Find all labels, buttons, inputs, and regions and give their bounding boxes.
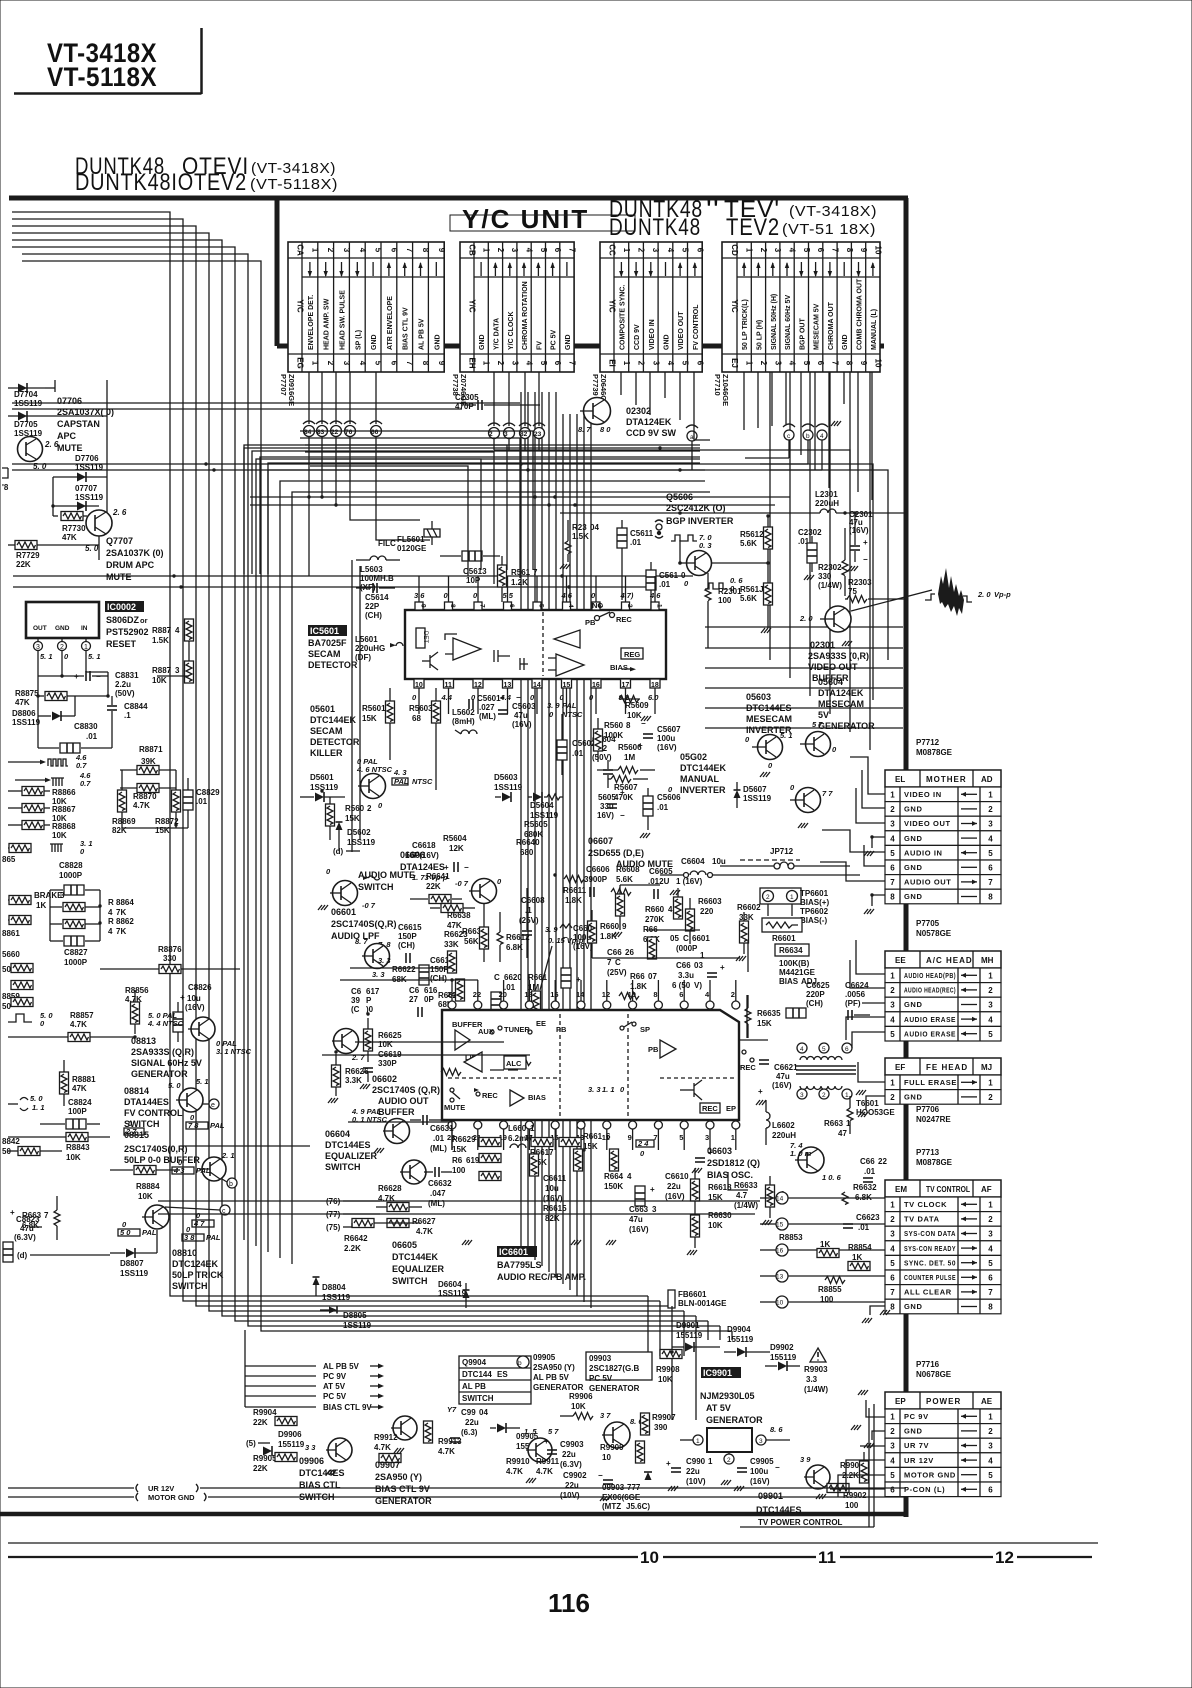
svg-text:D9906: D9906 (278, 1430, 302, 1439)
transistor Q9903 (600, 1411, 643, 1448)
svg-text:(C: (C (351, 1005, 360, 1014)
svg-text:GND: GND (479, 334, 486, 350)
IC6601 internal line amp (441, 1052, 531, 1076)
inductor L5601 220uH (355, 635, 403, 662)
svg-text:82: 82 (520, 431, 528, 438)
svg-text:0: 0 (640, 1149, 645, 1158)
svg-text:4 7: 4 7 (193, 1219, 205, 1228)
transistor Q8813 (147, 1011, 252, 1056)
svg-text:27: 27 (409, 995, 418, 1004)
svg-text:1: 1 (890, 1201, 895, 1210)
svg-text:AUDIO OUT: AUDIO OUT (904, 878, 951, 887)
svg-text:4: 4 (567, 604, 574, 608)
svg-text:P7716: P7716 (916, 1360, 940, 1369)
svg-text:50: 50 (2, 1002, 11, 1011)
svg-text:J5.6C): J5.6C) (626, 1502, 650, 1511)
svg-text:R660: R660 (645, 905, 665, 914)
svg-text:DETECTOR: DETECTOR (308, 660, 358, 670)
svg-text:BRAKE: BRAKE (34, 891, 63, 900)
capacitor C6621 47u (758, 1060, 798, 1096)
svg-text:3. 1 NTSC: 3. 1 NTSC (216, 1047, 252, 1056)
resistor R6632 6.8K (842, 1183, 877, 1205)
svg-text:R6642: R6642 (344, 1234, 368, 1243)
svg-text:C6632: C6632 (428, 1179, 452, 1188)
svg-text:SWITCH: SWITCH (325, 1162, 361, 1172)
svg-text:10K: 10K (627, 711, 642, 720)
svg-text:(10V): (10V) (560, 1491, 580, 1500)
svg-text:D5607: D5607 (743, 785, 767, 794)
capacitor C8823 47u (3, 1208, 40, 1262)
transistor Q5606 (678, 540, 711, 576)
svg-text:+: + (720, 963, 725, 972)
transistor Q9907 (391, 1416, 417, 1453)
svg-text:10K: 10K (138, 1192, 153, 1201)
ground EL row4 (864, 851, 874, 856)
svg-text:4: 4 (788, 248, 797, 253)
svg-text:9: 9 (628, 1133, 632, 1142)
resistor R5601 15K (362, 688, 395, 760)
svg-text:1SS119: 1SS119 (75, 493, 104, 502)
value box 2.4 (636, 1139, 654, 1158)
svg-text:CHROMA OUT: CHROMA OUT (828, 301, 835, 350)
svg-text:C8828: C8828 (59, 861, 83, 870)
svg-text:5: 5 (890, 1030, 895, 1039)
pin values top (414, 591, 661, 600)
pot 100K(B) BIAS ADJ (779, 959, 819, 986)
resistor R8864 4.7K (50, 898, 134, 917)
capacitor C2301 47u (848, 510, 873, 571)
svg-text:SIGNAL 60Hz 5V: SIGNAL 60Hz 5V (131, 1058, 202, 1068)
svg-text:V): V) (694, 981, 702, 990)
svg-text:39: 39 (351, 996, 360, 1005)
svg-text:POWER: POWER (926, 1397, 961, 1406)
svg-text:FULL ERASE: FULL ERASE (904, 1078, 957, 1087)
svg-text:Vp-p: Vp-p (994, 590, 1011, 599)
svg-text:47K: 47K (447, 921, 462, 930)
svg-text:5 7: 5 7 (812, 720, 823, 729)
resistor R9904 22K (253, 1408, 297, 1427)
svg-text:7: 7 (988, 878, 993, 887)
svg-text:SP: SP (640, 1025, 650, 1034)
diode D7707 (53, 484, 104, 511)
svg-text:1K: 1K (820, 1240, 830, 1249)
svg-text:3: 3 (510, 248, 519, 253)
svg-text:(VT-3418X): (VT-3418X) (251, 160, 336, 177)
svg-text:(CH): (CH) (398, 941, 415, 950)
svg-text:P-CON (L): P-CON (L) (904, 1485, 945, 1494)
svg-text:NTSC: NTSC (562, 710, 583, 719)
warning triangle (810, 1348, 826, 1362)
svg-text:09907: 09907 (375, 1460, 400, 1470)
node (e) (203, 1099, 219, 1109)
IC0002 labels (105, 601, 149, 649)
capacitor C5612 (646, 562, 689, 612)
svg-text:1: 1 (745, 361, 754, 366)
transistor Q5601 (356, 757, 393, 810)
pal/ntsc values (547, 701, 583, 719)
leader line to blob (851, 590, 932, 611)
svg-text:D7704: D7704 (14, 390, 38, 399)
footer rule upper (8, 1542, 1098, 1544)
resistor R9901 2.2K (840, 1452, 869, 1483)
svg-text:4: 4 (890, 1015, 895, 1024)
svg-text:0: 0 (378, 801, 383, 810)
svg-text:1SS119: 1SS119 (743, 794, 772, 803)
svg-text:R664: R664 (604, 1172, 624, 1181)
capacitor C6623 .01 (843, 1213, 880, 1232)
wire bus horizontals (12, 403, 888, 700)
svg-text:UR 12V: UR 12V (904, 1456, 934, 1465)
svg-text:5. 1: 5. 1 (88, 652, 101, 661)
svg-text:8: 8 (449, 604, 456, 608)
svg-text:2. 6: 2. 6 (112, 508, 127, 517)
wire MOTOR GND (8, 1493, 906, 1502)
resistor R8854 1K (848, 1243, 872, 1271)
resistor R6603 220 (686, 897, 723, 944)
transistor Q6605 labels (392, 1240, 445, 1286)
svg-text:155119: 155119 (770, 1353, 797, 1362)
transistor Q8814 (168, 1077, 209, 1112)
frame right edge (904, 198, 909, 1517)
svg-text:5.5: 5.5 (503, 591, 514, 600)
svg-text:b: b (229, 1181, 233, 1188)
wire bus mid staircase (300, 431, 533, 584)
svg-text:R2303: R2303 (848, 578, 872, 587)
svg-text:2: 2 (60, 644, 64, 651)
svg-text:TV POWER CONTROL: TV POWER CONTROL (758, 1518, 843, 1527)
svg-text:0.7: 0.7 (80, 779, 91, 788)
svg-text:R887: R887 (152, 666, 172, 675)
svg-text:84: 84 (304, 429, 312, 436)
svg-text:.01: .01 (630, 538, 642, 547)
antenna node (655, 520, 663, 538)
transistor Q2302 (578, 398, 611, 435)
capacitor C5604 .22 (592, 735, 616, 788)
svg-text:MESECAM: MESECAM (818, 699, 864, 709)
svg-text:P7712: P7712 (916, 738, 940, 747)
svg-text:390: 390 (654, 1423, 668, 1432)
svg-text:.01: .01 (657, 803, 669, 812)
transistor Q9901 labels (756, 1491, 843, 1527)
svg-text:GND: GND (55, 625, 70, 632)
transistor Q7707 (85, 508, 127, 560)
svg-text:(6.3): (6.3) (461, 1428, 478, 1437)
table arrow-row separators (302, 276, 880, 278)
svg-text:39K: 39K (141, 757, 156, 766)
svg-text:(10V): (10V) (686, 1477, 706, 1486)
svg-text:5. 0: 5. 0 (30, 1094, 43, 1103)
svg-text:09903: 09903 (589, 1354, 612, 1363)
svg-text:6: 6 (816, 248, 825, 253)
svg-text:R6632: R6632 (853, 1183, 877, 1192)
wire bus left staircase (12, 212, 732, 1331)
svg-text:HEAD SW. PULSE: HEAD SW. PULSE (340, 290, 347, 350)
svg-text:.01: .01 (196, 797, 208, 806)
svg-text:1: 1 (988, 1413, 993, 1422)
svg-text:47u: 47u (514, 711, 528, 720)
title corner bracket (14, 28, 202, 94)
diode D8805 (320, 1307, 372, 1331)
svg-text:EE: EE (536, 1019, 546, 1028)
svg-text:6: 6 (890, 1274, 895, 1283)
transistor Q9907 labels (375, 1460, 432, 1506)
svg-text:100: 100 (718, 596, 732, 605)
svg-text:PAL: PAL (196, 1166, 211, 1175)
svg-text:0.7: 0.7 (76, 761, 87, 770)
svg-text:1.5K: 1.5K (152, 636, 169, 645)
svg-text:12K: 12K (449, 844, 464, 853)
left edge labels 8860 (2, 950, 33, 974)
svg-text:4 3: 4 3 (173, 1166, 185, 1175)
svg-text:IC6601: IC6601 (499, 1247, 528, 1257)
svg-text:7: 7 (567, 361, 576, 366)
svg-text:D5602: D5602 (347, 828, 371, 837)
svg-text:4.7K: 4.7K (374, 1443, 391, 1452)
resistor R8872 15K (155, 817, 179, 835)
svg-text:.01: .01 (572, 749, 584, 758)
svg-text:L6602: L6602 (772, 1121, 795, 1130)
svg-text:C9905: C9905 (750, 1457, 774, 1466)
svg-text:1K: 1K (36, 901, 46, 910)
wire audio feeders (30, 968, 760, 1227)
svg-text:ALL CLEAR: ALL CLEAR (904, 1288, 952, 1297)
transistor Q8815 labels (124, 1130, 200, 1165)
op-amp U IC5601 body (405, 576, 666, 714)
svg-text:VIDEO IN: VIDEO IN (904, 790, 942, 799)
svg-text:06607: 06607 (588, 836, 613, 846)
resistor R6628 4.7K (376, 1184, 422, 1228)
value box 0 7 (124, 1119, 144, 1136)
svg-text:L5602: L5602 (452, 708, 475, 717)
svg-text:4: 4 (890, 1456, 895, 1465)
svg-text:+: + (444, 863, 449, 872)
resistor R8869 82K (112, 770, 181, 835)
svg-text:0: 0 (473, 591, 478, 600)
diode D5603 (494, 773, 523, 802)
wire EM row8 gnd (862, 1306, 885, 1323)
resistor R7729 22K (8, 541, 99, 570)
svg-text:(50V): (50V) (592, 753, 612, 762)
svg-text:MANUAL: MANUAL (680, 774, 719, 784)
svg-text:CCD 9V: CCD 9V (634, 324, 641, 350)
wire EL table stubs (820, 757, 885, 906)
svg-text:GND: GND (904, 1427, 922, 1436)
svg-text:OUT: OUT (33, 625, 47, 632)
svg-text:KILLER: KILLER (310, 748, 343, 758)
svg-text:R8868: R8868 (52, 822, 76, 831)
svg-text:Y/C: Y/C (468, 299, 477, 313)
svg-text:1: 1 (890, 972, 895, 981)
IC5601 internal caps (494, 650, 528, 670)
inductor L5603 (356, 556, 400, 592)
svg-text:GND: GND (664, 334, 671, 350)
svg-text:SIGNAL 60Hz 5V: SIGNAL 60Hz 5V (785, 295, 792, 350)
svg-text:1: 1 (790, 894, 794, 901)
svg-text:18: 18 (651, 682, 659, 689)
svg-text:R8875: R8875 (15, 689, 39, 698)
svg-text:VIDEO OUT: VIDEO OUT (678, 311, 685, 350)
svg-text:.1: .1 (124, 711, 131, 720)
frame left step vertical (275, 198, 280, 346)
capacitor C6606 R6608 (584, 865, 640, 897)
svg-text:-0 7: -0 7 (455, 879, 469, 888)
svg-text:07706: 07706 (57, 396, 82, 406)
svg-text:4: 4 (705, 990, 710, 999)
off-page connector stub (2, 468, 9, 492)
capacitor C6617 39P (351, 987, 380, 1014)
svg-text:C6631: C6631 (430, 1124, 454, 1133)
svg-text:5: 5 (681, 361, 690, 366)
svg-text:4: 4 (988, 1244, 993, 1253)
resistor R8881 47K (60, 1060, 97, 1106)
svg-text:07: 07 (648, 972, 657, 981)
svg-text:2: 2 (731, 990, 735, 999)
svg-text:(VT-5118X): (VT-5118X) (250, 176, 338, 193)
svg-text:1K: 1K (852, 1253, 862, 1262)
svg-text:R2301: R2301 (718, 587, 742, 596)
svg-text:(50V): (50V) (115, 689, 135, 698)
svg-text:REG: REG (624, 650, 640, 659)
transistor Q5603 labels (746, 692, 792, 735)
capacitor C6605 (648, 867, 703, 899)
svg-text:0: 0 (497, 877, 502, 886)
transistor Q6606 labels (400, 850, 469, 872)
svg-text:10u: 10u (712, 857, 726, 866)
IC6601 internal rec transistor (680, 1080, 736, 1113)
power rail labels with braces (245, 1330, 384, 1412)
transistor Q7707 labels (106, 536, 164, 582)
svg-text:D8804: D8804 (322, 1283, 346, 1292)
plug label P7712 (916, 738, 953, 757)
svg-text:7 7: 7 7 (822, 789, 833, 798)
svg-text:+: + (620, 788, 625, 797)
svg-text:2: 2 (727, 1457, 731, 1464)
wire bus right verticals (770, 372, 870, 750)
svg-text:47K: 47K (15, 698, 30, 707)
resistor R8884 10K (110, 1166, 180, 1202)
capacitor C6619 330P (360, 1050, 402, 1089)
svg-text:3.6: 3.6 (414, 591, 425, 600)
svg-text:C8829: C8829 (196, 788, 220, 797)
svg-text:C9903: C9903 (560, 1440, 584, 1449)
resistor R6633 4.7 (734, 1176, 785, 1225)
svg-text:b: b (806, 433, 810, 440)
svg-text:R9906: R9906 (569, 1392, 593, 1401)
svg-text:Z1046GE: Z1046GE (721, 374, 730, 406)
svg-text:R5604: R5604 (443, 834, 467, 843)
svg-text:Y/C: Y/C (608, 299, 617, 313)
capacitor C5602 .01 (557, 714, 596, 775)
svg-text:REC: REC (740, 1063, 756, 1072)
testpoint TP6601 TP6602 (760, 888, 829, 925)
svg-text:PST52902: PST52902 (106, 627, 149, 637)
inductor L6602 220uH (766, 1100, 796, 1145)
svg-text:4.7: 4.7 (736, 1191, 748, 1200)
diode D5601 (300, 773, 345, 802)
resistor R8862 4.7K (50, 917, 134, 936)
svg-text:(PF): (PF) (845, 999, 861, 1008)
ground T6601 (856, 1090, 866, 1095)
svg-text:SWITCH: SWITCH (462, 1394, 494, 1403)
node stubs (14)(15)(16)(13)(10) (760, 1192, 885, 1308)
plug label P7710 (713, 374, 730, 406)
svg-text:330P: 330P (378, 1059, 397, 1068)
plug label P7738 (451, 374, 468, 406)
svg-text:4: 4 (666, 248, 675, 253)
svg-text:DTC144ES: DTC144ES (746, 703, 792, 713)
transistor Q2301 labels (808, 640, 869, 683)
svg-text:3.3u: 3.3u (678, 971, 694, 980)
svg-text:(CH): (CH) (365, 611, 382, 620)
svg-text:GND: GND (904, 834, 922, 843)
svg-text:L660: L660 (508, 1124, 527, 1133)
value box 4.7 PAL (192, 1211, 214, 1228)
svg-text:C6623: C6623 (856, 1213, 880, 1222)
svg-text:(DF): (DF) (355, 653, 371, 662)
svg-text:R887: R887 (152, 626, 172, 635)
diode D9906 (263, 1430, 316, 1456)
svg-text:03: 03 (694, 961, 703, 970)
svg-text:(CH): (CH) (430, 974, 447, 983)
resistor R5605 680K (524, 820, 548, 839)
svg-text:150K: 150K (604, 1182, 623, 1191)
svg-text:M4421GE: M4421GE (779, 968, 816, 977)
svg-text:IC9901: IC9901 (703, 1368, 732, 1378)
svg-text:7: 7 (479, 604, 486, 608)
resistor R8868 10K (8, 821, 76, 841)
op-amp U IC6601 body (442, 980, 740, 1150)
svg-text:C66: C66 (860, 1157, 875, 1166)
svg-text:1: 1 (988, 972, 993, 981)
svg-text:FV CONTROL: FV CONTROL (693, 304, 700, 350)
svg-text:(1/4W): (1/4W) (804, 1385, 828, 1394)
ground under CD pin8 (831, 421, 841, 426)
wire audio right feeders (592, 885, 768, 1190)
svg-text:AT 5V: AT 5V (323, 1382, 346, 1391)
svg-text:8: 8 (845, 361, 854, 366)
svg-text:2SA1037K (0): 2SA1037K (0) (106, 548, 164, 558)
capacitor C2305 470P (455, 393, 540, 411)
capacitor C8830 (38, 712, 112, 753)
svg-text:2: 2 (637, 248, 646, 253)
svg-text:R6625: R6625 (378, 1031, 402, 1040)
svg-text:1SS119: 1SS119 (310, 783, 339, 792)
capacitor C6611 10u (530, 1154, 568, 1223)
svg-text:3: 3 (988, 1001, 993, 1010)
IC5601 labels (308, 625, 358, 670)
svg-text:7K: 7K (116, 927, 126, 936)
svg-text:1: 1 (708, 1457, 713, 1466)
svg-text:IC0002: IC0002 (107, 602, 136, 612)
svg-text:VIDEO OUT: VIDEO OUT (904, 819, 951, 828)
svg-text:C8826: C8826 (188, 983, 212, 992)
waveform audio (363, 873, 448, 882)
svg-text:COUNTER PULSE: COUNTER PULSE (904, 1273, 956, 1282)
svg-text:3: 3 (890, 1442, 895, 1451)
transistor Q6603 (790, 1141, 842, 1182)
resistor R9906 10K (560, 1392, 593, 1420)
capacitor C6607 (607, 948, 657, 1000)
svg-text:7: 7 (988, 1288, 993, 1297)
svg-text:9: 9 (437, 361, 446, 366)
ground under R5613 (761, 628, 771, 633)
svg-text:EF: EF (895, 1063, 905, 1072)
svg-text:CA: CA (296, 244, 305, 256)
svg-text:AL PB 5V: AL PB 5V (533, 1373, 570, 1382)
svg-text:M0878GE: M0878GE (916, 748, 953, 757)
svg-text:4.7K: 4.7K (438, 1447, 455, 1456)
svg-text:5.6K: 5.6K (740, 594, 757, 603)
